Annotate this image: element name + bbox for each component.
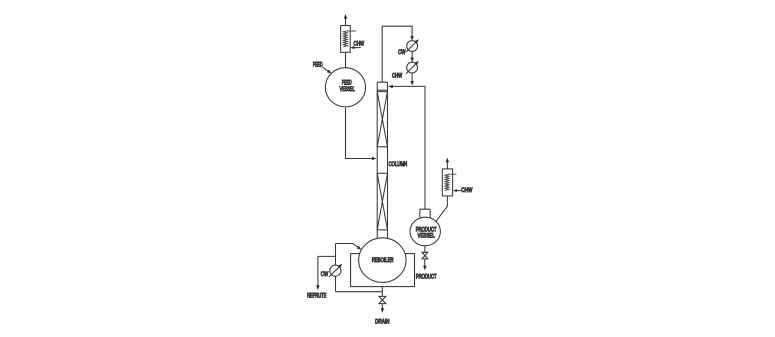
svg-text:CHW: CHW [392, 73, 402, 79]
column C1 shell [377, 82, 387, 238]
svg-text:CHW: CHW [461, 188, 472, 194]
loop left vertical wire upper [335, 244, 337, 266]
condenser E2 body [442, 169, 452, 196]
condenser E2 coolant inlet wire [453, 189, 461, 192]
drain wire from bath [381, 286, 383, 296]
reboiler return loop top wire [336, 244, 362, 250]
FEED inlet arrow [322, 67, 331, 74]
loop left vertical wire lower [335, 276, 337, 292]
REFRUTE outlet wire [316, 256, 320, 290]
product outlet arrow [423, 259, 427, 270]
svg-text:CHW: CHW [354, 41, 365, 47]
overhead riser wire [382, 26, 414, 82]
svg-text:FEED: FEED [313, 63, 323, 69]
svg-text:REFRUTE: REFRUTE [307, 294, 326, 300]
heat exchanger E3 (CW) [406, 39, 419, 52]
svg-text:VESSEL: VESSEL [418, 234, 436, 240]
condenser E2 coil [445, 174, 449, 190]
svg-text:PRODUCT: PRODUCT [416, 274, 437, 280]
condenser E2 outlet line [448, 173, 456, 175]
condenser E1 coil [343, 31, 347, 47]
svg-text:DRAIN: DRAIN [375, 320, 389, 326]
valve VLV2 (drain) [379, 296, 386, 303]
feed wire vessel to column [346, 108, 377, 160]
reboiler R1 [359, 238, 406, 283]
condenser E1 coolant inlet wire [350, 46, 360, 49]
condenser E1 body [341, 26, 351, 53]
wire condenser E2 to product vessel [436, 196, 448, 222]
heat exchanger E4 (CHW) [406, 61, 419, 74]
svg-text:REBOILER: REBOILER [372, 258, 394, 264]
product vessel neck [420, 209, 430, 218]
heat exchanger E5 (CW on loop) [329, 264, 342, 277]
condenser E1 vent arrow [344, 14, 347, 26]
column packing section 2 [377, 173, 387, 230]
loop bottom wire to drain line [336, 291, 383, 293]
feed vessel V1 [325, 68, 365, 107]
svg-text:COLUMN: COLUMN [389, 162, 408, 168]
column feed section line [377, 172, 387, 174]
wire condenser E1 to feed vessel [345, 52, 347, 67]
reboiler bath rectangle [351, 254, 415, 287]
svg-text:VESSEL: VESSEL [340, 87, 356, 93]
svg-text:FEED: FEED [342, 80, 352, 86]
wire E4 down to header [410, 73, 414, 86]
svg-text:PRODUCT: PRODUCT [416, 227, 437, 233]
takeoff junction wire [318, 255, 336, 257]
wire vessel to product valve [424, 246, 426, 253]
wire E3 to E4 [410, 51, 414, 62]
reflux / product header wire [388, 85, 425, 210]
drain outlet arrow [381, 304, 385, 313]
valve VLV1 (product) [422, 252, 428, 259]
condenser E1 outlet line [346, 30, 356, 32]
product vessel V2 [410, 217, 440, 246]
condenser E2 vent arrow [446, 158, 450, 169]
column packing section 1 [377, 92, 387, 147]
svg-text:CW: CW [321, 272, 329, 278]
svg-text:CW: CW [398, 50, 406, 56]
column head lines [377, 90, 387, 91]
